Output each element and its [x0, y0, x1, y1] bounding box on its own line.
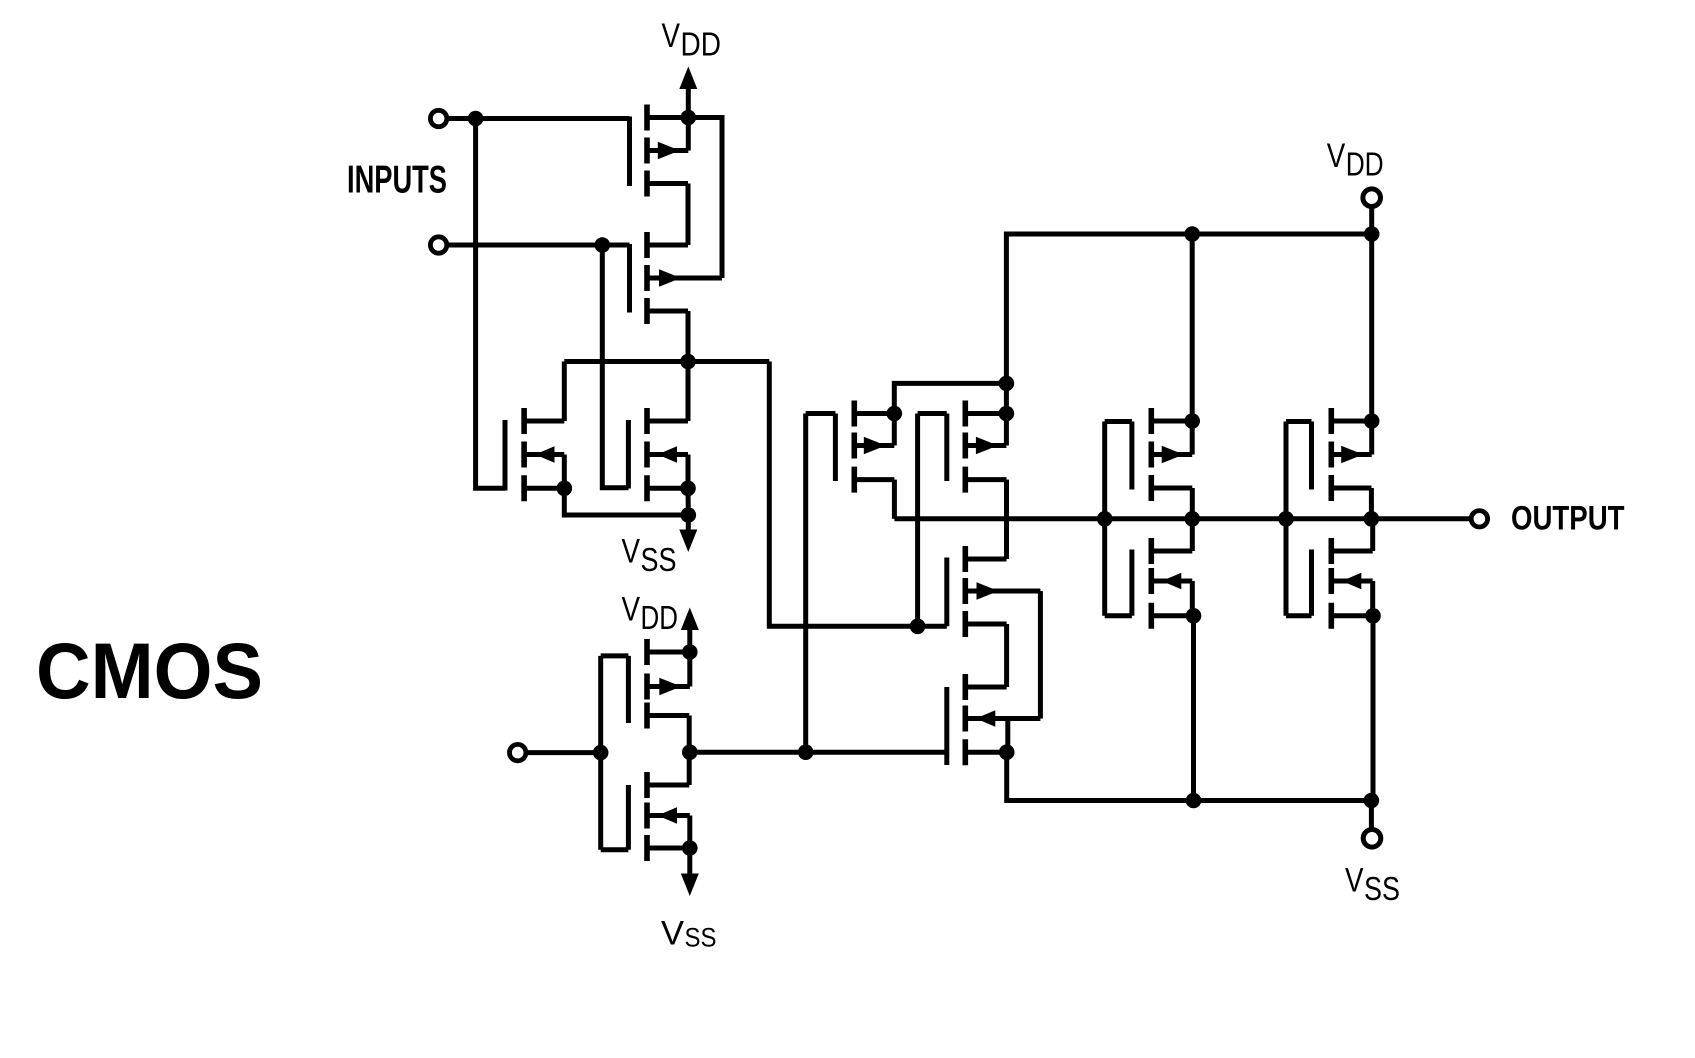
transistor P5 channel	[962, 401, 968, 493]
power VSS arrow upper	[679, 530, 697, 553]
transistor P2 source arrow	[659, 269, 681, 286]
transistor T6a drain lead	[965, 557, 1006, 562]
svg-text:V: V	[662, 17, 681, 55]
power VSS stem upper	[686, 515, 691, 531]
transistor T10 source arrow	[1342, 573, 1362, 589]
transistor T7 channel	[1149, 408, 1155, 501]
junction P5 bulk VDD	[999, 406, 1015, 422]
transistor N1 channel	[521, 408, 527, 501]
svg-text:OUTPUT: OUTPUT	[1511, 500, 1625, 538]
transistor P4 source arrow	[864, 437, 886, 454]
transistor N2 channel	[644, 408, 650, 501]
transistor P2 channel	[644, 232, 650, 324]
transistor P3 drain lead	[647, 713, 689, 718]
junction T10 bulk	[1365, 608, 1381, 624]
transistor T9 gate bar	[1309, 422, 1314, 490]
junction T6a gate line	[910, 619, 926, 635]
svg-text:DD: DD	[641, 599, 679, 636]
transistor N3 gate bar	[626, 785, 631, 850]
transistor T10 drain lead	[1331, 549, 1372, 554]
transistor N1 source arrow	[535, 446, 555, 462]
wire P5 gate top jog	[918, 411, 947, 416]
svg-text:CMOS: CMOS	[36, 626, 263, 715]
transistor N1 source lead	[524, 452, 564, 457]
wire P5 drain down to T6a drain	[1004, 480, 1009, 559]
wire T10 bulk down to VSS rail	[1371, 616, 1376, 801]
junction input B	[595, 237, 611, 253]
transistor N2 drain lead	[647, 419, 688, 424]
transistor N2 bulk lead	[647, 486, 688, 491]
wire T6a bulk to T6b drain	[1004, 624, 1009, 687]
junction VDD rail at T7	[1184, 226, 1200, 242]
wire T7 gate tie vertical	[1102, 422, 1107, 616]
wire VDD riser and rail	[1006, 234, 1371, 414]
wire P5 gate tie vertical	[915, 414, 920, 627]
transistor T8 gate bar	[1129, 550, 1134, 616]
wire NOR output down to N1 drain	[562, 362, 567, 422]
wire input B to P2 gate	[447, 243, 630, 248]
transistor T9 bulk lead	[1331, 419, 1371, 424]
transistor N1 drain lead	[524, 419, 564, 424]
wire N3 gate bottom jog	[601, 847, 629, 852]
transistor P3 gate bar	[626, 656, 631, 723]
wire inverter gate tie vertical	[598, 656, 603, 850]
transistor P4 source lead	[854, 443, 894, 448]
transistor P1 source lead	[647, 148, 688, 153]
transistor T6b source lead	[965, 716, 1040, 721]
wire T7 gate top jog	[1105, 419, 1132, 424]
transistor T9 channel	[1329, 408, 1335, 501]
transistor N3 source arrow	[658, 807, 678, 823]
wire NOR output down to N2 drain	[686, 362, 691, 422]
wire T8 bulk down to VSS rail	[1191, 616, 1196, 801]
transistor P2 source lead	[647, 276, 722, 281]
svg-text:V: V	[622, 533, 641, 571]
junction T8 bulk	[1186, 608, 1202, 624]
transistor P5 source arrow	[976, 437, 998, 454]
junction VSS rail right end	[1364, 793, 1380, 809]
transistor P3 source arrow	[659, 678, 681, 695]
transistor T6b bulk lead	[965, 750, 1006, 755]
junction T7 gate on output line	[1097, 511, 1113, 527]
junction NOR output at P2 drain	[680, 354, 696, 370]
transistor P2 bulk lead	[647, 243, 688, 248]
wire T6b bulk down to VSS rail	[1007, 752, 1372, 800]
junction VSS rail at T8	[1186, 793, 1202, 809]
transistor P4 channel	[851, 401, 857, 493]
power VDD terminal stem	[1369, 207, 1374, 235]
junction P4 bulk	[887, 406, 903, 422]
wire N1 source down	[562, 455, 567, 489]
wire input A down to N1 gate	[476, 119, 505, 489]
wire inverter input	[526, 750, 601, 755]
wire VDD junction to P3 source	[687, 652, 692, 687]
junction output line at T9	[1364, 511, 1380, 527]
transistor N3 bulk lead	[647, 846, 690, 851]
transistor N2 source arrow	[658, 446, 678, 462]
transistor P4 drain lead	[854, 477, 894, 482]
junction VDD rail right end	[1364, 226, 1380, 242]
transistor T6a gate bar	[944, 558, 949, 627]
input terminal B	[430, 237, 446, 253]
wire P4 gate top jog	[806, 411, 836, 416]
transistor T10 bulk lead	[1331, 613, 1373, 618]
junction output line at T7	[1185, 511, 1201, 527]
transistor T6a bulk lead	[965, 622, 1006, 627]
transistor P3 bulk lead	[647, 650, 690, 655]
transistor N2 gate bar	[626, 420, 631, 489]
wire NOR output to T6a gate route	[769, 362, 947, 627]
junction VDD at P3	[682, 644, 698, 660]
transistor T9 source arrow	[1341, 446, 1363, 463]
junction N1 bulk	[557, 481, 573, 497]
junction T6b bulk	[999, 744, 1015, 760]
junction N2 bulk	[680, 481, 696, 497]
wire T10 source down	[1370, 581, 1375, 616]
transistor T8 channel	[1149, 538, 1155, 629]
power VSS terminal stem	[1369, 801, 1374, 830]
wire P1 drain to P2 bulk	[686, 184, 691, 246]
svg-text:INPUTS: INPUTS	[347, 159, 447, 202]
transistor P5 bulk lead	[965, 411, 1006, 416]
transistor N2 source lead	[647, 452, 688, 457]
power VDD terminal circle	[1363, 189, 1381, 207]
transistor T6a source arrow	[977, 582, 999, 599]
transistor N1 bulk lead	[524, 486, 564, 491]
svg-text:V: V	[1327, 137, 1346, 175]
transistor T6b drain lead	[965, 685, 1006, 690]
junction T9 bulk	[1364, 413, 1380, 429]
wire P4 drain down to output line	[892, 480, 897, 519]
transistor P2 drain lead	[647, 309, 688, 314]
transistor P4 gate bar	[833, 414, 838, 482]
wire P2 drain down to NOR output node	[686, 311, 691, 362]
wire VDD junction to P1 source	[686, 118, 691, 151]
transistor P3 channel	[644, 639, 650, 729]
power VDD stem lower	[687, 630, 692, 652]
junction N3 bulk VSS	[682, 840, 698, 856]
wire T9 gate tie vertical	[1284, 422, 1289, 616]
wire P3 drain down to inverter output	[687, 716, 692, 753]
transistor T7 drain lead	[1151, 486, 1192, 491]
transistor T9 source lead	[1331, 452, 1371, 457]
svg-text:V: V	[661, 915, 684, 953]
svg-text:SS: SS	[1364, 870, 1400, 907]
wire T9 gate top jog	[1286, 419, 1312, 424]
transistor T7 gate bar	[1129, 422, 1134, 490]
svg-text:SS: SS	[641, 541, 677, 578]
wire T7 drain down to output line	[1190, 488, 1195, 519]
transistor T8 source lead	[1151, 579, 1192, 584]
wire P3 gate top jog	[601, 653, 629, 658]
output terminal	[1471, 511, 1487, 527]
wire P4 junction to source	[892, 414, 897, 446]
power VDD arrow lower	[681, 608, 699, 631]
transistor T7 source arrow	[1162, 446, 1184, 463]
svg-text:V: V	[1345, 862, 1364, 900]
transistor T10 gate bar	[1309, 550, 1314, 616]
transistor T7 source lead	[1151, 452, 1192, 457]
transistor N1 gate bar	[503, 420, 508, 491]
input terminal A	[430, 110, 446, 126]
wire output node line	[894, 516, 1471, 521]
transistor T7 bulk lead	[1151, 419, 1192, 424]
wire VDD jog right	[688, 118, 722, 279]
svg-text:DD: DD	[681, 25, 722, 62]
junction P4 gate tie	[798, 744, 814, 760]
junction VDD line at P4	[999, 376, 1015, 392]
wire T7 bulk riser to VDD rail	[1190, 234, 1195, 421]
transistor T6b gate bar	[944, 687, 949, 765]
transistor N3 drain lead	[647, 783, 689, 788]
wire T9 junction to source	[1369, 421, 1374, 455]
transistor T8 bulk lead	[1151, 613, 1193, 618]
svg-text:DD: DD	[1346, 145, 1384, 182]
inverter input terminal	[510, 744, 526, 760]
power VSS arrow lower	[681, 874, 699, 897]
wire P5 junction to source	[1004, 414, 1009, 446]
junction T7 bulk	[1184, 413, 1200, 429]
transistor P5 gate bar	[944, 414, 949, 482]
transistor T6a source lead	[965, 589, 1040, 594]
wire T10 gate bottom jog	[1286, 613, 1312, 618]
transistor T9 drain lead	[1331, 486, 1371, 491]
power VSS terminal circle	[1363, 830, 1381, 848]
transistor T8 source arrow	[1162, 573, 1182, 589]
wire input B down to N2 gate	[602, 245, 628, 488]
wire N1 bulk to VSS node	[564, 488, 688, 515]
wire T9 bulk riser to VDD rail	[1369, 234, 1374, 421]
wire T9 drain down to output line	[1369, 488, 1374, 519]
transistor T6b channel	[962, 674, 968, 765]
transistor T10 source lead	[1331, 579, 1372, 584]
wire T6a source down	[1038, 591, 1043, 719]
wire N3 drain up to inverter output	[687, 752, 692, 785]
transistor P1 source arrow	[658, 142, 680, 159]
transistor T8 drain lead	[1151, 549, 1192, 554]
junction input A	[468, 111, 484, 127]
transistor P1 bulk lead	[647, 115, 688, 120]
wire inverter output to T6b gate	[690, 750, 947, 755]
wire T6b source down	[1005, 719, 1010, 753]
power VDD stem top	[686, 89, 691, 118]
wire N2 bulk down	[686, 488, 691, 515]
transistor P5 source lead	[965, 443, 1006, 448]
transistor N3 source lead	[647, 813, 690, 818]
transistor P1 drain lead	[647, 181, 688, 186]
wire N3 source down	[687, 816, 692, 849]
power VDD arrow top	[679, 67, 697, 90]
junction inverter input gate tie	[593, 745, 609, 761]
wire P4 bulk riser to VDD line	[894, 383, 1006, 413]
transistor T10 channel	[1329, 538, 1335, 629]
junction VSS node under NOR	[681, 507, 697, 523]
transistor T6a channel	[962, 546, 968, 637]
wire T8 gate bottom jog	[1105, 613, 1132, 618]
power VSS stem lower	[687, 848, 692, 874]
svg-text:V: V	[622, 591, 641, 629]
transistor T6b source arrow	[976, 710, 996, 726]
wire T10 drain up to output line	[1370, 519, 1375, 551]
wire T7 junction to source	[1190, 421, 1195, 455]
transistor N3 channel	[644, 772, 650, 861]
transistor P1 channel	[644, 105, 650, 197]
wire input A to P1 gate	[447, 116, 630, 121]
wire T8 source down	[1190, 581, 1195, 616]
node VDD junction at P1	[681, 110, 697, 126]
junction inverter output	[682, 744, 698, 760]
wire NOR output node horizontal	[564, 359, 769, 364]
transistor P5 drain lead	[965, 477, 1006, 482]
transistor P4 bulk lead	[854, 411, 894, 416]
transistor P1 gate bar	[627, 117, 632, 187]
junction T9 gate on output line	[1278, 511, 1294, 527]
svg-text:SS: SS	[685, 923, 717, 953]
transistor P2 gate bar	[627, 244, 632, 313]
wire P4 gate tie vertical	[803, 414, 808, 753]
transistor P3 source lead	[647, 684, 690, 689]
wire N2 source down	[686, 455, 691, 489]
wire T8 drain up to output line	[1190, 519, 1195, 551]
